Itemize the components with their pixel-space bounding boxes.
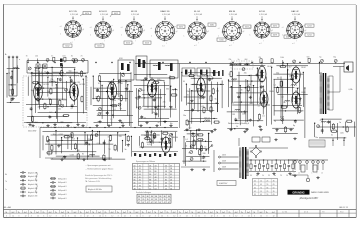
svg-text:ECC85: ECC85 (44, 84, 50, 86)
svg-text:0,1: 0,1 (71, 108, 74, 110)
svg-text:Sockelschaltungen: Sockelschaltungen (136, 191, 151, 194)
svg-text:05: 05 (254, 191, 256, 193)
svg-text:3: 3 (6, 216, 7, 218)
svg-text:GRUNDIG: GRUNDIG (292, 190, 304, 194)
svg-text:72: 72 (155, 186, 157, 188)
svg-text:70: 70 (280, 175, 282, 177)
svg-text:70: 70 (81, 55, 83, 57)
svg-text:7b: 7b (129, 212, 131, 214)
svg-text:16: 16 (286, 175, 288, 177)
svg-text:6412: 6412 (245, 26, 249, 28)
svg-text:Bd: Bd (5, 174, 7, 176)
svg-text:70: 70 (320, 120, 322, 122)
svg-text:34: 34 (155, 165, 157, 167)
svg-text:500: 500 (153, 86, 156, 88)
svg-text:4a2: 4a2 (247, 212, 250, 214)
svg-text:2n: 2n (57, 82, 59, 84)
svg-text:GB 05 74: GB 05 74 (339, 207, 349, 209)
svg-text:0,1: 0,1 (262, 115, 265, 117)
svg-text:15n: 15n (121, 123, 124, 125)
svg-text:74: 74 (149, 168, 151, 170)
svg-text:50p: 50p (152, 112, 155, 114)
svg-text:7b: 7b (80, 212, 82, 214)
svg-text:35: 35 (254, 184, 256, 186)
svg-text:3: 3 (31, 216, 32, 218)
svg-text:a1: a1 (282, 27, 284, 29)
svg-text:4n7: 4n7 (168, 139, 171, 141)
svg-text:610: 610 (286, 36, 289, 38)
svg-text:9 10: 9 10 (340, 212, 343, 214)
svg-text:12: 12 (49, 216, 51, 218)
svg-text:8µ: 8µ (120, 108, 122, 110)
svg-text:1k: 1k (236, 126, 238, 128)
svg-text:52: 52 (134, 171, 136, 173)
svg-text:12: 12 (149, 216, 151, 218)
svg-text:86: 86 (155, 196, 157, 198)
svg-text:12: 12 (139, 168, 141, 170)
svg-text:1k: 1k (110, 119, 112, 121)
svg-text:12: 12 (136, 216, 138, 218)
svg-text:330: 330 (166, 89, 169, 91)
svg-text:a1: a1 (121, 27, 123, 29)
svg-text:6213: 6213 (145, 42, 149, 44)
svg-text:86: 86 (155, 171, 157, 173)
svg-text:30: 30 (165, 174, 167, 176)
svg-text:100k: 100k (146, 139, 150, 141)
svg-text:1 2 3 4: 1 2 3 4 (282, 212, 287, 214)
svg-text:0,05: 0,05 (35, 70, 39, 72)
svg-text:55: 55 (149, 171, 151, 173)
svg-text:8n: 8n (71, 55, 73, 57)
svg-text:EF 89: EF 89 (131, 11, 138, 13)
svg-text:25: 25 (165, 188, 167, 190)
svg-text:3n: 3n (187, 95, 189, 97)
svg-text:2n: 2n (163, 82, 165, 84)
svg-text:4a2: 4a2 (11, 212, 14, 214)
svg-text:12: 12 (111, 216, 113, 218)
svg-text:Sämtliche Spannungen bei 220 V: Sämtliche Spannungen bei 220 V~ (85, 174, 113, 177)
svg-text:0,05: 0,05 (117, 93, 121, 95)
svg-text:EM 84: EM 84 (229, 11, 236, 13)
svg-text:4a2: 4a2 (111, 212, 114, 214)
svg-text:47: 47 (155, 202, 157, 204)
svg-text:330: 330 (327, 121, 330, 123)
svg-text:10n: 10n (315, 137, 318, 139)
svg-text:2n: 2n (228, 74, 230, 76)
svg-text:7b: 7b (154, 212, 156, 214)
svg-text:8µ: 8µ (293, 125, 295, 127)
svg-text:g2: g2 (271, 30, 273, 32)
svg-text:a1: a1 (90, 27, 92, 29)
svg-text:1k: 1k (95, 134, 97, 136)
svg-text:3: 3 (130, 216, 131, 218)
svg-text:7b: 7b (166, 212, 168, 214)
svg-text:86: 86 (151, 196, 153, 198)
svg-text:77: 77 (165, 168, 167, 170)
svg-text:Tb: Tb (5, 181, 7, 183)
svg-text:4a2: 4a2 (86, 212, 89, 214)
svg-text:15: 15 (260, 181, 262, 183)
svg-text:12: 12 (12, 216, 14, 218)
svg-text:25k: 25k (58, 109, 61, 111)
svg-text:EABC80: EABC80 (207, 78, 214, 81)
svg-text:70: 70 (44, 72, 46, 74)
svg-text:12: 12 (223, 216, 225, 218)
svg-text:3n: 3n (51, 55, 53, 57)
svg-text:65: 65 (254, 187, 256, 189)
svg-text:4a2: 4a2 (24, 212, 27, 214)
svg-text:12: 12 (99, 216, 101, 218)
svg-text:4a2: 4a2 (61, 212, 64, 214)
svg-text:88: 88 (149, 180, 151, 182)
svg-text:35: 35 (142, 199, 144, 201)
svg-text:0,5M: 0,5M (59, 134, 63, 136)
svg-text:03: 03 (149, 165, 151, 167)
svg-text:3: 3 (68, 216, 69, 218)
svg-text:86: 86 (138, 196, 140, 198)
svg-text:05: 05 (254, 181, 256, 183)
svg-text:2a: 2a (5, 189, 7, 191)
svg-text:50: 50 (139, 188, 141, 190)
svg-text:25: 25 (267, 181, 269, 183)
svg-text:4n7: 4n7 (289, 66, 292, 68)
svg-text:50p: 50p (276, 73, 279, 75)
svg-text:3: 3 (266, 216, 267, 218)
svg-text:28: 28 (134, 188, 136, 190)
svg-text:0,1: 0,1 (113, 109, 116, 111)
svg-text:35: 35 (138, 199, 140, 201)
svg-text:g2: g2 (82, 29, 84, 31)
svg-text:6,3V 0,3A: 6,3V 0,3A (292, 13, 300, 16)
svg-text:ECC85: ECC85 (80, 84, 86, 86)
svg-text:0,3: 0,3 (51, 158, 54, 160)
svg-text:a1: a1 (218, 28, 220, 30)
svg-text:70: 70 (98, 83, 100, 85)
svg-text:7b: 7b (241, 212, 243, 214)
svg-text:6214: 6214 (307, 34, 311, 36)
svg-text:0,05: 0,05 (36, 104, 40, 106)
svg-text:0,1: 0,1 (208, 117, 211, 119)
svg-text:12: 12 (37, 216, 39, 218)
svg-text:3n: 3n (241, 90, 243, 92)
svg-text:35: 35 (254, 194, 256, 196)
svg-text:3n: 3n (125, 149, 127, 151)
svg-text:70: 70 (26, 55, 28, 57)
svg-text:30p: 30p (299, 111, 302, 113)
svg-text:05: 05 (273, 187, 275, 189)
svg-text:12: 12 (273, 216, 275, 218)
svg-text:12: 12 (260, 216, 262, 218)
svg-text:10n: 10n (277, 77, 280, 79)
svg-text:70: 70 (41, 72, 43, 74)
svg-text:47: 47 (151, 202, 153, 204)
svg-text:55: 55 (267, 184, 269, 186)
svg-text:Spannungen an Röhren: Spannungen an Röhren (136, 161, 155, 163)
svg-text:6213: 6213 (307, 25, 311, 27)
svg-text:6,3V 0,3A: 6,3V 0,3A (194, 13, 202, 16)
svg-text:85: 85 (134, 180, 136, 182)
svg-text:16: 16 (118, 99, 120, 101)
svg-text:4 5 6: 4 5 6 (304, 212, 308, 214)
svg-text:m 2: m 2 (259, 43, 262, 45)
svg-text:→ Röhrenvoltmeter gegen Masse: → Röhrenvoltmeter gegen Masse (85, 168, 113, 171)
svg-text:1k: 1k (126, 82, 128, 84)
svg-text:3: 3 (18, 216, 19, 218)
svg-text:25k: 25k (187, 91, 190, 93)
svg-text:EL84: EL84 (302, 67, 306, 69)
svg-text:3: 3 (254, 216, 255, 218)
svg-text:5k: 5k (9, 89, 11, 91)
svg-text:3: 3 (142, 216, 143, 218)
svg-text:56: 56 (170, 188, 172, 190)
svg-text:3: 3 (155, 216, 156, 218)
svg-text:45: 45 (260, 194, 262, 196)
svg-text:86: 86 (164, 196, 166, 198)
svg-text:3: 3 (192, 216, 193, 218)
svg-text:100k: 100k (280, 57, 284, 59)
svg-text:g2: g2 (207, 31, 209, 33)
svg-text:8n: 8n (107, 87, 109, 89)
svg-text:41: 41 (149, 186, 151, 188)
svg-text:„Musikgerät 1088“: „Musikgerät 1088“ (299, 197, 318, 200)
svg-text:11: 11 (165, 177, 167, 179)
svg-text:6,3V 0,3A: 6,3V 0,3A (131, 13, 139, 16)
svg-text:6,3V 0,3A: 6,3V 0,3A (162, 13, 170, 16)
svg-text:2n: 2n (238, 59, 240, 61)
svg-text:30p: 30p (31, 90, 34, 92)
svg-text:3: 3 (118, 216, 119, 218)
svg-text:35: 35 (273, 191, 275, 193)
svg-text:4a2: 4a2 (123, 212, 126, 214)
svg-text:4a2: 4a2 (197, 212, 200, 214)
svg-text:12: 12 (211, 216, 213, 218)
svg-text:65: 65 (273, 184, 275, 186)
svg-text:45: 45 (260, 184, 262, 186)
svg-text:8µ: 8µ (319, 56, 321, 58)
svg-text:6k8: 6k8 (144, 77, 147, 79)
svg-text:ECC 85: ECC 85 (69, 11, 77, 13)
svg-text:33: 33 (134, 174, 136, 176)
svg-text:35: 35 (151, 199, 153, 201)
svg-text:EL 84: EL 84 (194, 11, 200, 13)
svg-text:5n: 5n (199, 77, 201, 79)
svg-text:3n: 3n (189, 161, 191, 163)
svg-text:0,1: 0,1 (8, 73, 11, 75)
svg-text:5k: 5k (215, 99, 217, 101)
svg-text:4a2: 4a2 (222, 212, 225, 214)
svg-text:GB x AB: GB x AB (3, 206, 11, 209)
svg-text:0,05: 0,05 (200, 106, 204, 108)
svg-text:35: 35 (159, 199, 161, 201)
svg-text:7b: 7b (104, 212, 106, 214)
svg-text:330: 330 (59, 145, 62, 147)
svg-text:0,3: 0,3 (248, 84, 251, 86)
svg-text:25k: 25k (108, 81, 111, 83)
svg-text:6,3V 0,3A: 6,3V 0,3A (229, 13, 237, 16)
svg-text:35: 35 (164, 199, 166, 201)
svg-text:47k: 47k (163, 102, 166, 104)
svg-text:2n: 2n (100, 113, 102, 115)
svg-text:0,5M: 0,5M (70, 155, 74, 157)
svg-text:6075: 6075 (273, 25, 277, 27)
svg-text:6,3V 0,3A: 6,3V 0,3A (100, 13, 108, 16)
svg-text:35: 35 (168, 199, 170, 201)
svg-text:12: 12 (173, 216, 175, 218)
svg-text:6k8: 6k8 (245, 59, 248, 61)
svg-text:EAF 42: EAF 42 (291, 10, 299, 13)
svg-text:80: 80 (170, 171, 172, 173)
svg-text:4n7: 4n7 (187, 103, 190, 105)
svg-text:5k: 5k (238, 94, 240, 96)
svg-text:4a2: 4a2 (135, 212, 138, 214)
svg-text:8µ: 8µ (274, 120, 276, 122)
svg-text:47k: 47k (37, 107, 40, 109)
svg-text:7b: 7b (55, 212, 57, 214)
svg-text:47k: 47k (74, 97, 77, 99)
svg-text:0,1: 0,1 (258, 106, 261, 108)
svg-text:4a2: 4a2 (73, 212, 76, 214)
svg-text:53: 53 (155, 188, 157, 190)
svg-text:10n: 10n (199, 98, 202, 100)
svg-text:20: 20 (155, 180, 157, 182)
svg-text:50: 50 (250, 175, 252, 177)
svg-text:37: 37 (170, 165, 172, 167)
svg-text:500: 500 (231, 102, 234, 104)
svg-text:3n: 3n (331, 135, 333, 137)
svg-text:4a2: 4a2 (98, 212, 101, 214)
svg-text:0,1: 0,1 (185, 139, 188, 141)
svg-text:82: 82 (165, 180, 167, 182)
svg-text:6075: 6075 (179, 26, 183, 28)
svg-text:EL84: EL84 (268, 66, 272, 68)
svg-text:8n: 8n (82, 153, 84, 155)
svg-text:0,3: 0,3 (72, 138, 75, 140)
svg-text:6k8: 6k8 (142, 90, 145, 92)
svg-text:ECH81: ECH81 (118, 83, 124, 85)
svg-text:220: 220 (289, 76, 292, 78)
svg-text:64: 64 (139, 174, 141, 176)
svg-text:83: 83 (139, 171, 141, 173)
svg-text:16: 16 (108, 137, 110, 139)
svg-text:12: 12 (235, 216, 237, 218)
svg-text:12: 12 (198, 216, 200, 218)
svg-text:61: 61 (170, 174, 172, 176)
svg-text:45: 45 (139, 177, 141, 179)
svg-text:0,05: 0,05 (340, 133, 344, 135)
svg-text:36: 36 (149, 174, 151, 176)
svg-text:60: 60 (149, 183, 151, 185)
svg-text:7b: 7b (117, 212, 119, 214)
svg-text:7b: 7b (204, 212, 206, 214)
svg-text:EM84: EM84 (270, 91, 274, 93)
svg-text:70: 70 (204, 146, 206, 148)
svg-text:50p: 50p (69, 71, 72, 73)
svg-text:47: 47 (168, 202, 170, 204)
svg-text:EABC 80: EABC 80 (161, 10, 171, 13)
svg-text:6412: 6412 (114, 13, 118, 15)
svg-text:5k: 5k (48, 98, 50, 100)
svg-text:6070: 6070 (85, 13, 89, 15)
svg-text:4a2: 4a2 (272, 212, 275, 214)
svg-text:500: 500 (307, 56, 310, 58)
svg-text:10n: 10n (55, 88, 58, 90)
svg-text:m 2: m 2 (162, 45, 165, 47)
svg-text:18: 18 (170, 168, 172, 170)
svg-text:25k: 25k (216, 90, 219, 92)
svg-text:63: 63 (165, 183, 167, 185)
svg-text:3: 3 (167, 216, 168, 218)
svg-text:6,3V 0,3A: 6,3V 0,3A (259, 13, 267, 16)
svg-text:0,05: 0,05 (296, 88, 300, 90)
svg-text:4a2: 4a2 (185, 212, 188, 214)
svg-text:25k: 25k (204, 118, 207, 120)
svg-text:330: 330 (77, 150, 80, 152)
svg-text:T: T (317, 173, 318, 175)
svg-text:EZ80: EZ80 (302, 92, 306, 94)
svg-text:m 2: m 2 (70, 42, 73, 44)
svg-text:4a2: 4a2 (148, 212, 151, 214)
svg-text:220: 220 (88, 139, 91, 141)
svg-text:15: 15 (260, 191, 262, 193)
svg-text:7b: 7b (253, 212, 255, 214)
svg-text:EF89: EF89 (158, 80, 162, 82)
svg-text:8µ: 8µ (256, 175, 258, 177)
svg-text:TA. Toleranz ±10%: TA. Toleranz ±10% (85, 180, 100, 183)
svg-text:3: 3 (105, 216, 106, 218)
svg-text:7b: 7b (5, 212, 7, 214)
svg-text:75: 75 (170, 186, 172, 188)
svg-text:Netz gemessen. Schalterstellun: Netz gemessen. Schalterstellung (85, 177, 111, 180)
svg-text:6,3V 0,3A: 6,3V 0,3A (70, 13, 78, 16)
svg-text:0,5M: 0,5M (297, 104, 301, 106)
svg-text:7b: 7b (30, 212, 32, 214)
svg-text:4a2: 4a2 (49, 212, 52, 214)
svg-text:5n: 5n (339, 122, 341, 124)
svg-text:4n: 4n (274, 175, 276, 177)
svg-text:330: 330 (203, 153, 206, 155)
svg-text:25k: 25k (113, 100, 116, 102)
svg-text:0,05: 0,05 (62, 55, 65, 57)
svg-text:67: 67 (155, 174, 157, 176)
svg-text:g2: g2 (176, 31, 178, 33)
svg-text:8n: 8n (189, 153, 191, 155)
svg-text:65: 65 (273, 194, 275, 196)
svg-text:2n: 2n (144, 118, 146, 120)
svg-text:500: 500 (292, 98, 295, 100)
svg-text:a1: a1 (60, 26, 62, 28)
svg-text:47: 47 (159, 202, 161, 204)
svg-text:48: 48 (155, 177, 157, 179)
svg-text:86: 86 (147, 196, 149, 198)
svg-text:8n: 8n (88, 145, 90, 147)
svg-text:3: 3 (229, 216, 230, 218)
svg-text:EABC80: EABC80 (172, 136, 179, 139)
svg-text:30p: 30p (154, 98, 157, 100)
svg-text:12: 12 (186, 216, 188, 218)
svg-text:6001 UKW: 6001 UKW (28, 131, 37, 133)
svg-text:25: 25 (267, 191, 269, 193)
svg-text:75: 75 (260, 187, 262, 189)
svg-text:14: 14 (134, 177, 136, 179)
svg-text:42: 42 (170, 177, 172, 179)
svg-text:50p: 50p (196, 135, 199, 137)
svg-text:a1: a1 (151, 28, 153, 30)
svg-text:3n: 3n (276, 131, 278, 133)
svg-text:3: 3 (56, 216, 57, 218)
svg-text:3: 3 (204, 216, 205, 218)
svg-text:5n: 5n (157, 122, 159, 124)
svg-text:0,05: 0,05 (97, 143, 101, 145)
